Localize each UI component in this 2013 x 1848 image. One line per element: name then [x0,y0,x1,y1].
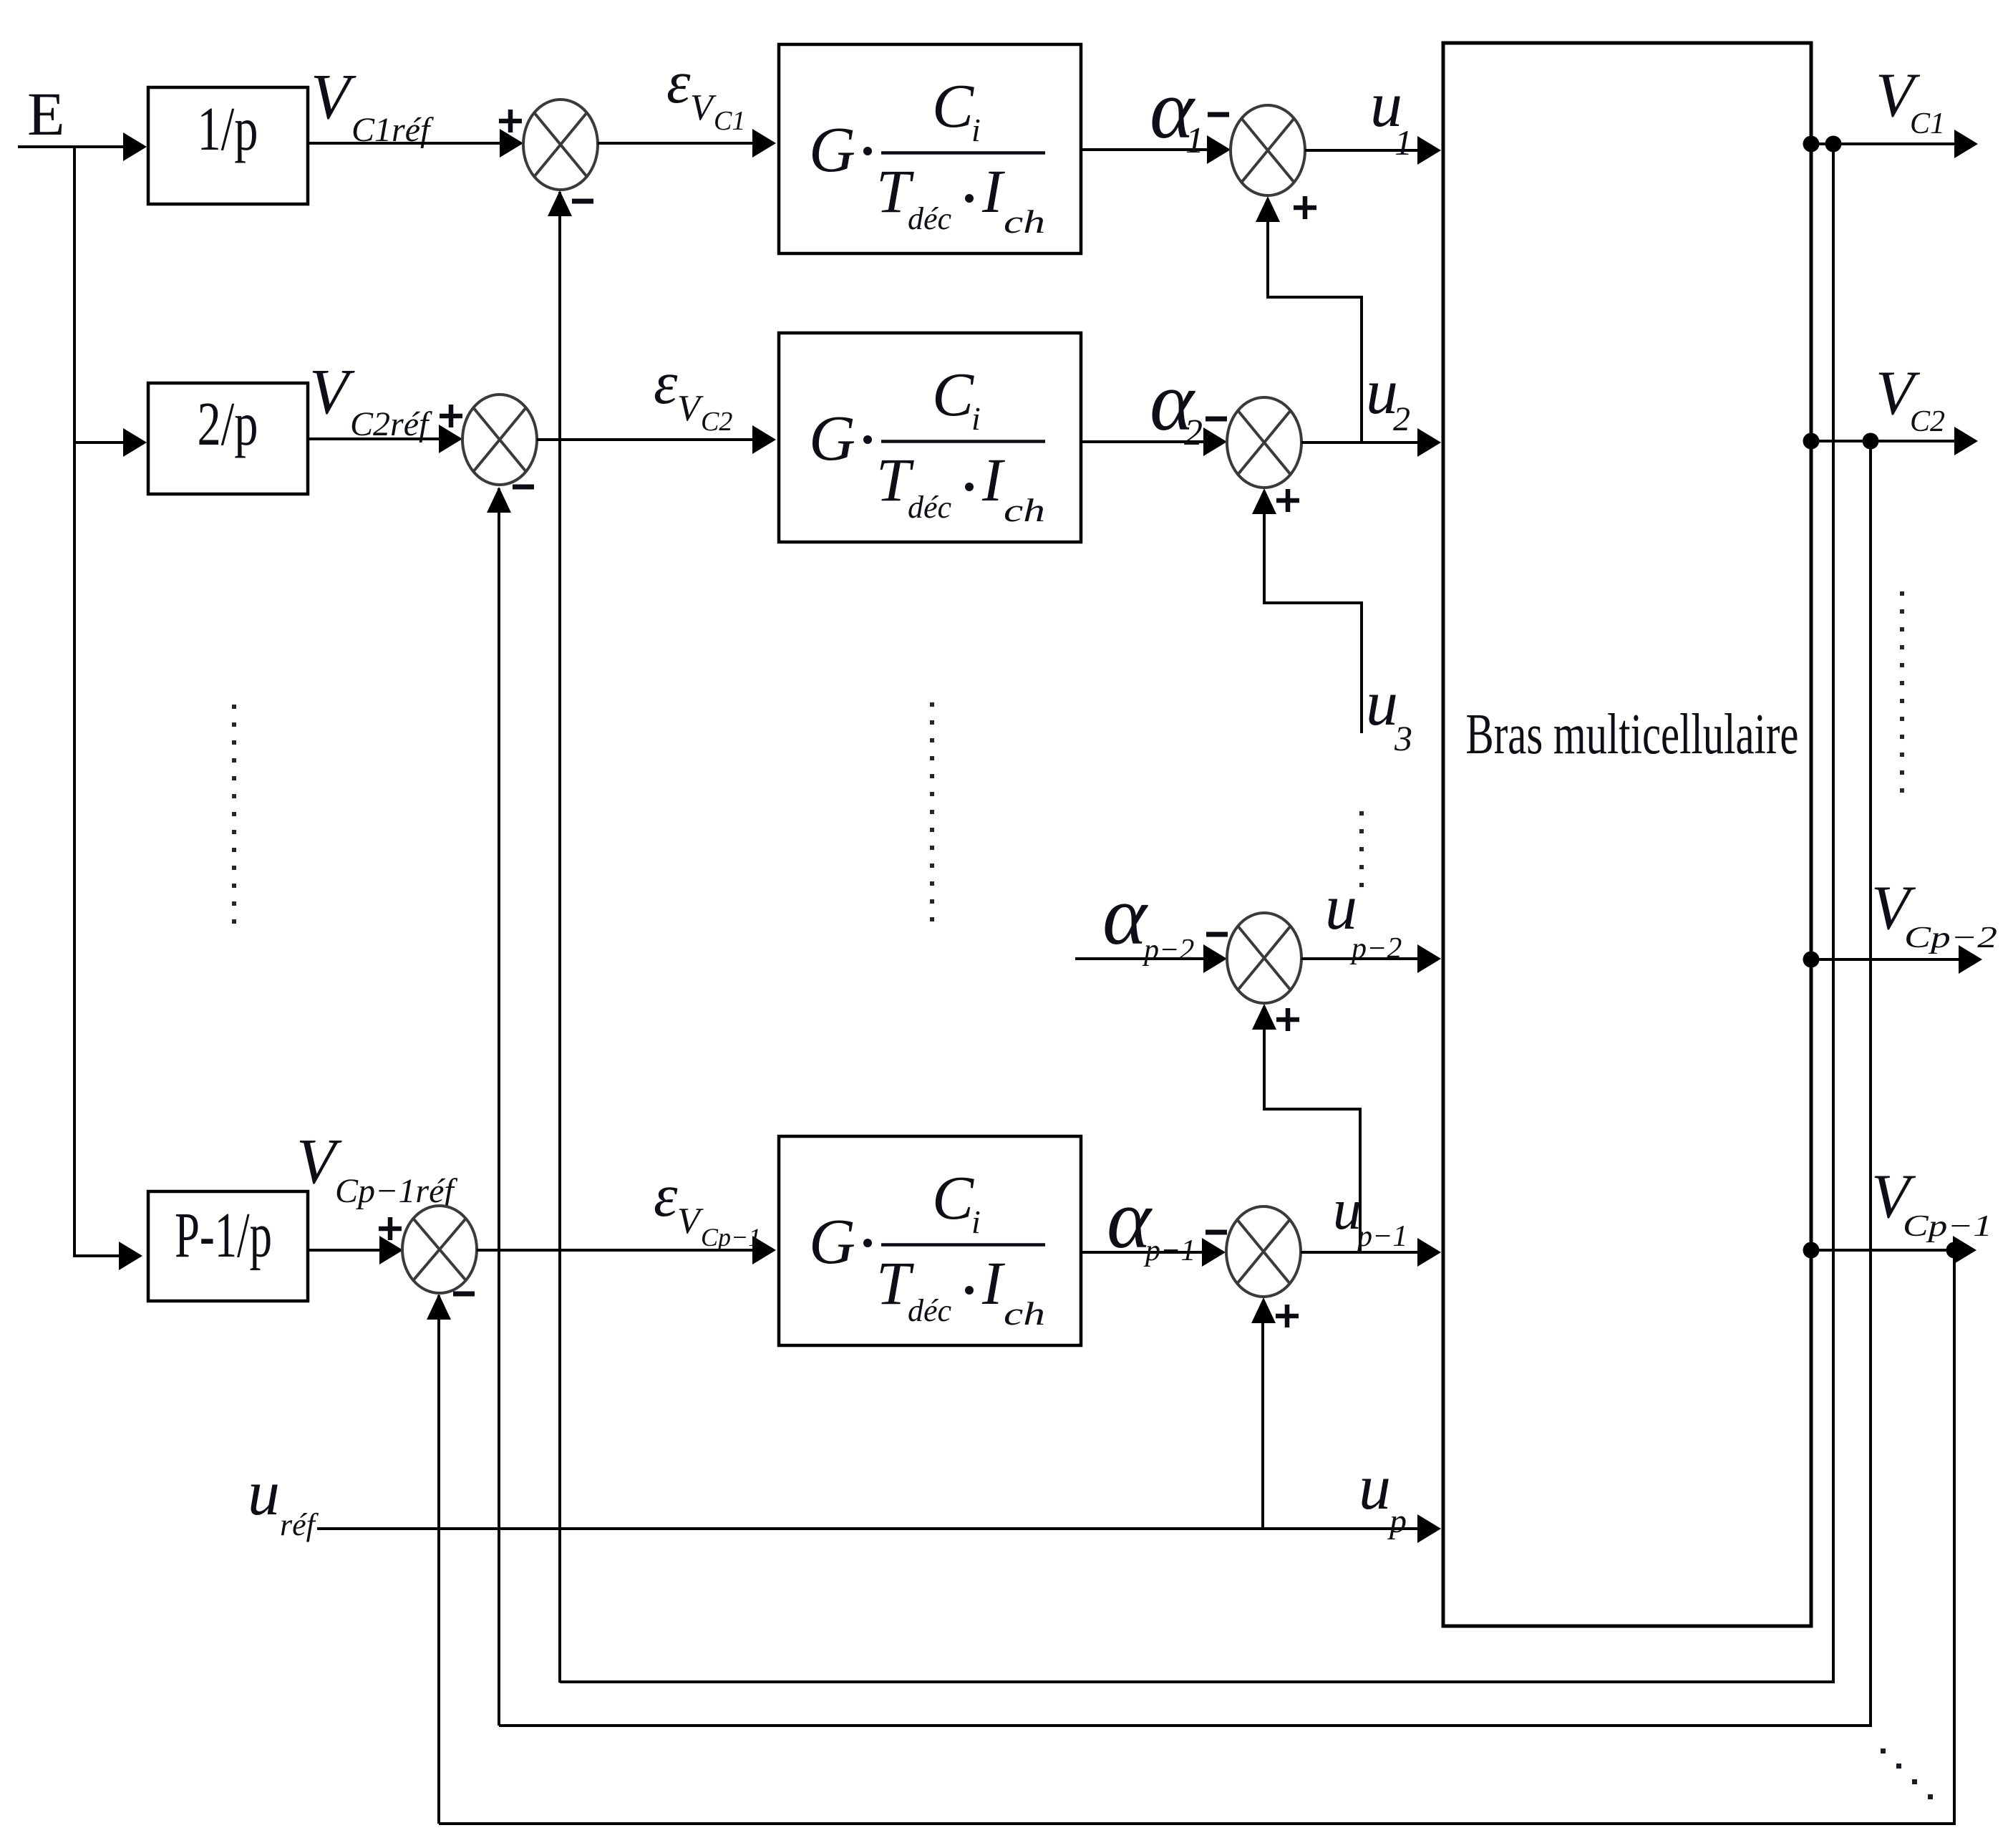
arrowhead u3 into A2 [1252,488,1276,514]
arrowhead feedback into Sp1 [427,1294,451,1320]
svg-text:ch: ch [1004,492,1045,528]
wire: branch to block 2/p [74,441,126,444]
summing junction Ap1 [1226,1206,1301,1297]
svg-text:u: u [248,1458,280,1529]
svg-text:C: C [932,1163,974,1232]
svg-text:p−2: p−2 [1349,932,1402,965]
svg-text:V: V [690,87,717,128]
plus sign at S2 [440,405,462,427]
wire: V_C1ref to summer S1 [308,142,501,145]
plus sign at Ap1 [1276,1305,1299,1327]
wire: Sp1 to controller block Kp1 [477,1249,754,1252]
label V_C1ref [311,62,434,149]
wire: Kp1 output alpha_p-1 [1081,1251,1203,1254]
svg-text:déc: déc [908,490,952,525]
controller block K1 (G.Ci/Tdec.Ich) [779,44,1081,253]
wire: u2 tap zigzag to A1 [1268,221,1362,441]
wire: S1 to controller block K1 [598,142,754,145]
arrowhead u_p into converter [1417,1514,1441,1543]
arrowhead V_C2 [1954,427,1978,455]
node dot V_C1 feedback tap [1825,136,1842,153]
svg-text:i: i [971,1204,981,1240]
svg-text:P-1/p: P-1/p [175,1200,272,1271]
svg-text:2/p: 2/p [198,389,258,458]
arrowhead V_C1 [1954,130,1978,158]
dotted continuation right outputs [1900,591,1904,793]
arrowhead V_Cp-1 [1953,1236,1976,1264]
wire: V_Cp-1 feedback [439,1250,1954,1824]
wire: V_C1 feedback [560,144,1833,1682]
svg-text:2: 2 [1184,412,1203,453]
label u_ref [248,1458,319,1542]
controller block Kp1 (G.Ci/Tdec.Ich) [779,1136,1081,1345]
arrowhead alpha_1 into summer A1 [1207,135,1231,164]
arrowhead u2 into A1 [1256,196,1280,222]
controller block K2 (G.Ci/Tdec.Ich) [779,333,1081,542]
wire: S2 to controller block K2 [537,438,754,441]
plus sign at A2 [1276,489,1299,512]
node dot V_Cp-1 feedback tap [1946,1242,1963,1259]
wire: branch to block P-1/p [74,1254,122,1257]
label alpha_p-2 [1102,869,1194,967]
svg-text:déc: déc [908,1293,952,1328]
svg-text:C2: C2 [701,407,732,437]
arrowhead u_p into Ap1 [1251,1297,1276,1323]
plus sign at Ap2 [1276,1008,1299,1031]
label alpha_p-1 [1107,1172,1195,1267]
minus sign at Ap1 [1206,1230,1227,1235]
wire: V_Cp-1 output [1811,1249,1953,1252]
label V_Cp-1 [1871,1162,1992,1243]
wire: V_C2 feedback [499,441,1871,1726]
label V_C2 [1876,359,1945,438]
arrowhead u_p-1 into converter [1417,1238,1441,1267]
svg-text:ε: ε [654,1162,678,1229]
arrowhead feedback into S1 [548,190,572,216]
wire: u_p-1 to converter [1301,1251,1417,1254]
label u_p [1359,1452,1407,1540]
wire: u_p-1 tap zigzag to Ap2 [1264,1028,1360,1252]
label epsilon_VCp-1 [654,1162,761,1252]
svg-text:G: G [809,1206,855,1277]
svg-text:I: I [981,1249,1005,1317]
summing junction A2 [1227,397,1301,488]
svg-text:i: i [971,400,981,437]
wire: alpha_p-2 input [1075,957,1204,960]
arrowhead V_Cp-2 [1959,945,1982,974]
wire: E branch vertical bus [73,145,76,1257]
arrowhead u1 into converter [1417,136,1441,165]
dotted continuation bottom-right diagonal [1881,1748,1933,1799]
minus sign at A1 [1208,112,1229,117]
svg-text:G: G [809,115,855,185]
svg-text:Cp−1: Cp−1 [1903,1210,1992,1243]
summing junction A1 [1231,105,1305,195]
svg-text:C1: C1 [1910,107,1945,140]
arrowhead into block 2/p [123,428,147,457]
label epsilon_VC2 [654,349,732,437]
svg-text:V: V [677,388,704,429]
block Bras multicellulaire [1443,43,1811,1626]
minus sign at Sp1 [453,1292,475,1297]
svg-text:C: C [932,359,974,429]
arrowhead feedback into S2 [487,487,511,513]
wire: feedback riser to S1 [558,192,561,1683]
svg-text:Bras multicellulaire: Bras multicellulaire [1466,703,1799,766]
arrowhead into block 1/p [123,132,147,161]
svg-text:1: 1 [1394,122,1412,163]
node dot V_Cp-1 at box edge [1803,1242,1820,1259]
wire: K2 output alpha_2 [1081,440,1204,443]
wire: u3 tap zigzag to A2 [1264,513,1362,733]
wire: u_p tap vertical from u_ref [1261,1322,1264,1529]
svg-text:G: G [809,403,855,474]
dotted continuation left column [232,705,236,924]
block 1/p [148,87,308,204]
svg-text:I: I [981,445,1005,514]
arrowhead into block K2 [752,425,776,454]
arrowhead u_p-2 into converter [1417,944,1441,973]
svg-text:u: u [1366,668,1398,739]
label u_p-1 [1333,1179,1407,1253]
wire: V_C2 output [1811,440,1954,442]
wire: V_C2ref to summer S2 [308,437,440,440]
svg-text:Cp−1: Cp−1 [701,1223,761,1252]
svg-text:p−1: p−1 [1143,1234,1195,1267]
svg-text:ε: ε [654,349,678,417]
label V_Cp-2 [1871,874,1997,954]
wire: V_Cp-1ref to summer Sp1 [308,1249,381,1252]
arrowhead u2 into converter [1417,428,1441,457]
label alpha_2 [1150,354,1203,453]
summing junction S1 [523,100,598,190]
block P-1/p [148,1191,308,1301]
arrowhead into summer Sp1 [379,1236,403,1264]
svg-text:E: E [27,79,65,148]
minus sign at S1 [572,199,593,204]
label V_C1 [1876,61,1945,140]
svg-text:ch: ch [1004,203,1045,240]
svg-text:3: 3 [1394,718,1412,758]
block 2/p [148,383,308,494]
svg-text:u: u [1359,1452,1391,1523]
wire: u2 to converter [1301,441,1417,444]
dotted continuation middle column [930,702,934,921]
svg-text:V: V [311,62,356,132]
arrowhead alpha_2 into summer A2 [1203,427,1227,456]
svg-text:C1: C1 [714,106,745,136]
arrowhead into summer S1 [500,129,523,158]
minus sign at S2 [513,485,534,490]
wire: feedback riser to S2 [498,488,500,1726]
svg-text:1/p: 1/p [198,94,258,163]
svg-text:1: 1 [1185,120,1204,161]
wire: V_Cp-2 output [1811,958,1959,961]
wire: u1 to converter [1305,149,1417,152]
arrowhead u_p-1 into Ap2 [1252,1004,1276,1030]
wire: feedback riser to Sp1 [437,1295,440,1824]
arrowhead into summer S2 [439,425,462,453]
wire: V_C1 output [1811,142,1954,145]
plus sign at Sp1 [379,1217,402,1240]
node dot V_C2 feedback tap [1863,433,1879,450]
svg-text:ch: ch [1004,1295,1045,1332]
plus sign at S1 [499,110,522,132]
label u_1 [1370,69,1412,163]
label V_C2ref [309,357,432,443]
svg-text:p: p [1387,1502,1407,1540]
label u_p-2 [1325,872,1402,965]
svg-text:2: 2 [1393,400,1410,438]
svg-text:I: I [981,157,1005,226]
label alpha_1 [1150,62,1204,161]
arrowhead into block K1 [752,129,776,158]
wire: K1 output alpha_1 [1081,148,1208,151]
arrowhead alpha_p-1 into summer Ap1 [1202,1238,1226,1267]
label V_Cp-1ref [296,1126,457,1210]
svg-text:ε: ε [666,49,691,116]
arrowhead into block P-1/p [119,1242,142,1270]
wire: u_ref to converter (u_p) [317,1527,1417,1530]
wire: E input [18,145,126,148]
svg-text:C2: C2 [1910,405,1945,438]
minus sign at Ap2 [1206,932,1228,937]
arrowhead into block Kp1 [752,1236,776,1264]
svg-text:V: V [309,357,355,427]
svg-text:i: i [971,112,981,148]
node dot V_Cp-2 at box edge [1803,952,1820,968]
svg-text:réf: réf [280,1507,319,1542]
plus sign at A1 [1294,196,1316,219]
svg-text:p−2: p−2 [1142,934,1194,967]
minus sign at A2 [1206,417,1227,422]
summing junction S2 [462,395,537,485]
node dot V_C2 at box edge [1803,433,1820,450]
wire: u_p-2 to converter [1301,957,1417,960]
node dot V_C1 at box edge [1803,136,1820,153]
svg-text:C: C [932,71,974,140]
label u_2 [1366,357,1410,438]
svg-text:p−1: p−1 [1355,1220,1407,1253]
dotted continuation u column [1359,811,1364,887]
svg-text:V: V [677,1201,704,1242]
label u_3 (dangling) [1366,668,1412,758]
summing junction Sp1 [402,1206,477,1293]
svg-text:Cp−2: Cp−2 [1904,921,1997,954]
arrowhead alpha_p-2 into summer Ap2 [1203,944,1227,973]
svg-text:α: α [1102,869,1148,962]
label epsilon_VC1 [666,49,745,136]
svg-text:déc: déc [908,201,952,236]
summing junction Ap2 [1227,913,1301,1003]
